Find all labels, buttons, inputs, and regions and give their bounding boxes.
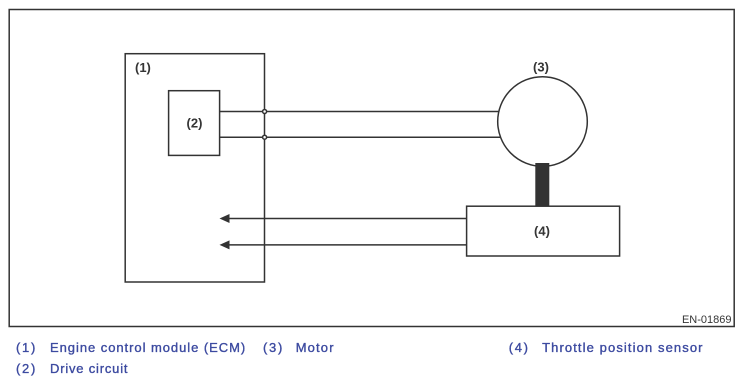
arrowhead lower <box>220 240 230 249</box>
legend text Throttle position sensor <box>542 340 704 355</box>
motor circle (3) <box>498 77 588 167</box>
wire: drive circuit to motor, upper <box>220 111 500 113</box>
outer border frame of figure <box>9 10 734 327</box>
arrowhead upper <box>220 214 230 223</box>
wire: sensor to ECM, lower (arrow) <box>226 244 467 246</box>
drive circuit box (2) <box>169 91 220 156</box>
ECM box (1) Engine control module <box>125 54 264 282</box>
shaft: motor to throttle position sensor <box>535 163 549 207</box>
svg-text:EN-01869: EN-01869 <box>682 314 732 326</box>
legend item (3) <box>263 340 284 355</box>
legend item (1) <box>16 340 37 355</box>
junction: lower wire through ECM boundary <box>263 135 267 139</box>
legend text Motor <box>296 340 335 355</box>
legend item (2) <box>16 361 37 376</box>
wire: drive circuit to motor, lower <box>220 136 500 138</box>
throttle position sensor box (4) <box>467 206 620 256</box>
wire: sensor to ECM, upper (arrow) <box>226 218 467 220</box>
svg-text:(3): (3) <box>533 60 549 75</box>
legend text Engine control module (ECM) <box>50 340 246 355</box>
svg-text:(2): (2) <box>187 116 203 131</box>
legend text Drive circuit <box>50 361 128 376</box>
legend item (4) <box>509 340 530 355</box>
svg-text:(4): (4) <box>534 224 550 239</box>
junction: upper wire through ECM boundary <box>263 110 267 114</box>
svg-text:(1): (1) <box>135 60 151 75</box>
